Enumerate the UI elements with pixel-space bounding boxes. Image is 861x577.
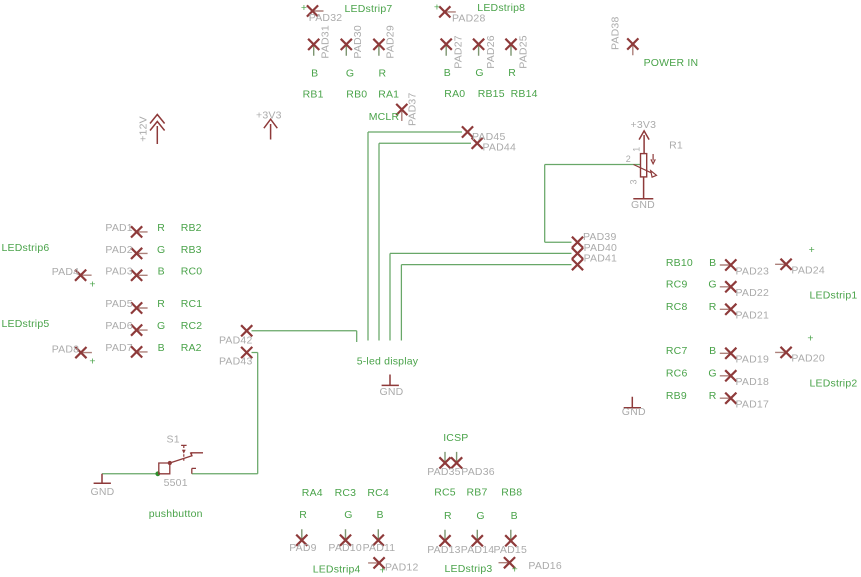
svg-text:RB10: RB10 bbox=[666, 257, 693, 269]
svg-text:G: G bbox=[476, 510, 484, 522]
svg-text:LEDstrip8: LEDstrip8 bbox=[477, 2, 525, 14]
svg-text:PAD8: PAD8 bbox=[52, 344, 79, 356]
svg-text:GND: GND bbox=[622, 406, 646, 418]
svg-text:+: + bbox=[301, 2, 307, 14]
svg-text:PAD13: PAD13 bbox=[427, 544, 461, 556]
svg-text:G: G bbox=[708, 279, 716, 291]
svg-text:RB8: RB8 bbox=[501, 487, 522, 499]
svg-text:PAD3: PAD3 bbox=[105, 265, 132, 277]
svg-text:B: B bbox=[511, 510, 518, 522]
svg-text:PAD4: PAD4 bbox=[52, 266, 79, 278]
svg-text:PAD2: PAD2 bbox=[105, 244, 132, 256]
svg-text:PAD38: PAD38 bbox=[610, 17, 622, 51]
svg-text:RC0: RC0 bbox=[181, 265, 203, 277]
svg-text:B: B bbox=[444, 67, 451, 79]
svg-text:RB3: RB3 bbox=[181, 244, 202, 256]
svg-text:PAD31: PAD31 bbox=[319, 25, 331, 59]
svg-text:B: B bbox=[158, 265, 165, 277]
svg-text:PAD23: PAD23 bbox=[736, 265, 770, 277]
svg-text:RC2: RC2 bbox=[181, 320, 203, 332]
svg-text:PAD7: PAD7 bbox=[105, 342, 132, 354]
svg-text:GND: GND bbox=[91, 486, 115, 498]
svg-text:PAD28: PAD28 bbox=[452, 13, 486, 25]
svg-text:RB14: RB14 bbox=[511, 88, 538, 100]
svg-text:RA1: RA1 bbox=[378, 88, 399, 100]
svg-text:PAD29: PAD29 bbox=[385, 25, 397, 59]
svg-text:R: R bbox=[444, 510, 452, 522]
svg-text:+: + bbox=[807, 332, 813, 344]
svg-text:G: G bbox=[344, 509, 352, 521]
svg-text:B: B bbox=[311, 67, 318, 79]
svg-text:+: + bbox=[809, 244, 815, 256]
svg-text:PAD20: PAD20 bbox=[791, 353, 825, 365]
svg-text:G: G bbox=[708, 368, 716, 380]
svg-text:PAD32: PAD32 bbox=[309, 12, 343, 24]
svg-text:LEDstrip4: LEDstrip4 bbox=[313, 563, 361, 575]
svg-text:+12V: +12V bbox=[138, 116, 150, 142]
svg-text:LEDstrip7: LEDstrip7 bbox=[345, 3, 393, 15]
svg-text:GND: GND bbox=[380, 386, 404, 398]
svg-text:RC1: RC1 bbox=[181, 298, 203, 310]
svg-text:+: + bbox=[434, 2, 440, 14]
svg-text:LEDstrip2: LEDstrip2 bbox=[810, 378, 858, 390]
svg-text:B: B bbox=[709, 257, 716, 269]
svg-text:PAD1: PAD1 bbox=[105, 222, 132, 234]
svg-text:RC7: RC7 bbox=[666, 345, 688, 357]
svg-text:+: + bbox=[89, 355, 95, 367]
svg-text:PAD43: PAD43 bbox=[219, 356, 253, 368]
svg-text:+3V3: +3V3 bbox=[631, 119, 657, 131]
svg-text:R: R bbox=[508, 67, 516, 79]
svg-text:PAD16: PAD16 bbox=[528, 560, 562, 572]
svg-text:5-led display: 5-led display bbox=[357, 355, 419, 367]
svg-text:G: G bbox=[475, 67, 483, 79]
svg-text:GND: GND bbox=[631, 199, 655, 211]
svg-text:B: B bbox=[158, 342, 165, 354]
svg-text:PAD42: PAD42 bbox=[219, 335, 253, 347]
svg-text:1: 1 bbox=[632, 147, 642, 152]
svg-text:PAD44: PAD44 bbox=[483, 142, 517, 154]
svg-text:PAD14: PAD14 bbox=[461, 544, 495, 556]
svg-text:PAD41: PAD41 bbox=[584, 252, 618, 264]
svg-text:RB15: RB15 bbox=[478, 88, 505, 100]
svg-text:PAD19: PAD19 bbox=[736, 354, 770, 366]
svg-text:+3V3: +3V3 bbox=[256, 109, 282, 121]
svg-text:RB1: RB1 bbox=[303, 88, 324, 100]
svg-text:R: R bbox=[709, 390, 717, 402]
svg-text:pushbutton: pushbutton bbox=[149, 508, 203, 520]
svg-text:RB9: RB9 bbox=[666, 390, 687, 402]
svg-text:PAD18: PAD18 bbox=[736, 376, 770, 388]
svg-text:POWER IN: POWER IN bbox=[644, 57, 699, 69]
svg-text:+: + bbox=[512, 564, 518, 576]
svg-text:LEDstrip1: LEDstrip1 bbox=[810, 290, 858, 302]
svg-text:RC5: RC5 bbox=[434, 487, 456, 499]
svg-text:LEDstrip6: LEDstrip6 bbox=[2, 242, 50, 254]
svg-text:+: + bbox=[89, 278, 95, 290]
svg-text:G: G bbox=[346, 67, 354, 79]
svg-text:PAD11: PAD11 bbox=[363, 542, 396, 554]
svg-text:R: R bbox=[299, 509, 307, 521]
svg-text:RC6: RC6 bbox=[666, 368, 688, 380]
svg-text:ICSP: ICSP bbox=[443, 432, 468, 444]
svg-text:PAD37: PAD37 bbox=[407, 93, 419, 127]
svg-text:PAD17: PAD17 bbox=[736, 399, 770, 411]
svg-text:B: B bbox=[709, 345, 716, 357]
svg-text:PAD35: PAD35 bbox=[427, 466, 461, 478]
svg-text:RA4: RA4 bbox=[302, 487, 323, 499]
svg-text:PAD21: PAD21 bbox=[736, 310, 770, 322]
svg-text:RB2: RB2 bbox=[181, 222, 202, 234]
svg-text:PAD5: PAD5 bbox=[105, 298, 132, 310]
svg-text:RC4: RC4 bbox=[367, 487, 389, 499]
svg-text:B: B bbox=[376, 509, 383, 521]
svg-text:PAD30: PAD30 bbox=[352, 25, 364, 59]
svg-text:PAD12: PAD12 bbox=[385, 562, 419, 574]
svg-text:R1: R1 bbox=[669, 140, 683, 152]
svg-text:PAD15: PAD15 bbox=[494, 544, 528, 556]
svg-text:LEDstrip3: LEDstrip3 bbox=[445, 563, 493, 575]
svg-text:RA0: RA0 bbox=[444, 88, 465, 100]
svg-text:RC9: RC9 bbox=[666, 279, 688, 291]
svg-text:G: G bbox=[157, 244, 165, 256]
svg-text:LEDstrip5: LEDstrip5 bbox=[2, 318, 50, 330]
svg-text:+: + bbox=[379, 565, 385, 577]
svg-text:PAD36: PAD36 bbox=[461, 466, 495, 478]
svg-text:MCLR: MCLR bbox=[369, 111, 400, 123]
svg-text:R: R bbox=[157, 298, 165, 310]
svg-text:RB0: RB0 bbox=[346, 88, 367, 100]
svg-text:PAD9: PAD9 bbox=[289, 542, 316, 554]
svg-text:2: 2 bbox=[626, 154, 631, 164]
svg-text:PAD26: PAD26 bbox=[485, 35, 497, 69]
svg-text:RB7: RB7 bbox=[467, 487, 488, 499]
svg-text:5501: 5501 bbox=[164, 477, 188, 489]
svg-text:RC8: RC8 bbox=[666, 301, 688, 313]
svg-text:R: R bbox=[709, 301, 717, 313]
svg-text:PAD22: PAD22 bbox=[736, 287, 770, 299]
svg-text:3: 3 bbox=[629, 179, 639, 184]
svg-text:PAD27: PAD27 bbox=[453, 35, 465, 69]
svg-text:PAD25: PAD25 bbox=[517, 35, 529, 69]
svg-text:RA2: RA2 bbox=[181, 342, 202, 354]
svg-text:R: R bbox=[157, 222, 165, 234]
svg-text:PAD6: PAD6 bbox=[105, 320, 132, 332]
svg-text:S1: S1 bbox=[167, 434, 180, 446]
svg-text:R: R bbox=[379, 67, 387, 79]
svg-text:RC3: RC3 bbox=[335, 487, 357, 499]
svg-text:PAD10: PAD10 bbox=[328, 542, 362, 554]
svg-text:PAD24: PAD24 bbox=[791, 265, 825, 277]
svg-text:G: G bbox=[157, 320, 165, 332]
